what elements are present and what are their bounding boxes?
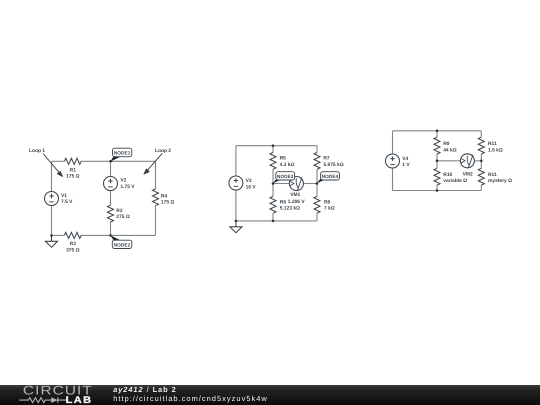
- svg-text:V3: V3: [246, 178, 252, 184]
- svg-text:1.75 V: 1.75 V: [120, 184, 135, 190]
- resistor R11 mystery: [478, 168, 484, 185]
- wire right vertical middle: [316, 169, 318, 196]
- resistor R1: [64, 158, 81, 164]
- wire middle vertical lower: [110, 222, 112, 235]
- svg-text:R9: R9: [443, 141, 450, 147]
- svg-text:5.875 kΩ: 5.875 kΩ: [323, 162, 343, 168]
- wire right vertical top: [480, 131, 482, 137]
- svg-text:ay2412 / Lab 2: ay2412 / Lab 2: [113, 385, 176, 394]
- wire mid vertical top: [436, 131, 438, 137]
- logo resistor-diode line: [19, 397, 66, 403]
- svg-text:R7: R7: [323, 156, 330, 162]
- wire left vertical upper: [51, 161, 53, 191]
- wire voltmeter right: [474, 160, 481, 162]
- resistor R10: [434, 168, 440, 185]
- ground: [45, 235, 57, 247]
- Loop 2 annotation: [143, 148, 171, 175]
- voltage source V3: [229, 176, 243, 190]
- svg-text:5.123 kΩ: 5.123 kΩ: [280, 206, 300, 212]
- wire left vertical upper: [392, 131, 394, 154]
- svg-text:16 V: 16 V: [246, 184, 257, 190]
- svg-text:NODE4: NODE4: [322, 174, 339, 179]
- svg-text:R4: R4: [161, 193, 168, 199]
- voltmeter VM2: [460, 154, 474, 168]
- resistor R7: [314, 153, 320, 170]
- resistor R6: [270, 196, 276, 213]
- footer bar: [0, 385, 540, 405]
- svg-text:R11: R11: [488, 172, 497, 178]
- wire bottom-right segment: [81, 234, 155, 236]
- resistor R3: [64, 232, 81, 238]
- svg-text:175 Ω: 175 Ω: [66, 174, 80, 180]
- junction NODE3: [272, 182, 275, 185]
- junction bottom left / ground: [235, 220, 238, 223]
- voltage source V2: [104, 177, 118, 191]
- svg-text:4.3 kΩ: 4.3 kΩ: [280, 162, 295, 168]
- node NODE4: [317, 172, 339, 184]
- junction at NODE2: [109, 234, 112, 237]
- junction bottom mid: [272, 220, 275, 223]
- svg-text:1 V: 1 V: [402, 162, 410, 168]
- junction NODE4: [316, 182, 319, 185]
- wire right vertical middle: [480, 154, 482, 168]
- resistor R8: [314, 196, 320, 213]
- voltage source V4: [386, 154, 400, 168]
- svg-text:Loop 1: Loop 1: [29, 148, 45, 154]
- resistor R11 top: [478, 137, 484, 154]
- resistor R5: [270, 153, 276, 170]
- voltage source V1: [45, 192, 59, 206]
- resistor R9: [434, 137, 440, 154]
- wire right vertical upper: [155, 161, 157, 189]
- wire right vertical top: [316, 146, 318, 153]
- svg-text:R3: R3: [70, 241, 77, 247]
- svg-text:Loop 2: Loop 2: [155, 148, 171, 154]
- svg-text:R2: R2: [116, 208, 123, 214]
- svg-text:mystery Ω: mystery Ω: [488, 178, 512, 184]
- svg-text:R5: R5: [280, 156, 287, 162]
- voltmeter VM1: [289, 177, 303, 191]
- ground: [230, 221, 242, 233]
- wire mid vertical bottom: [436, 185, 438, 190]
- wire top-left segment: [52, 160, 65, 162]
- wire left vertical upper: [235, 146, 237, 176]
- node NODE2: [110, 235, 132, 248]
- Loop 1 annotation: [29, 148, 63, 178]
- wire middle vertical mid: [110, 191, 112, 206]
- wire mid vertical middle: [436, 154, 438, 168]
- wire left vertical lower: [235, 190, 237, 221]
- wire bottom: [236, 220, 317, 222]
- junction mid right: [480, 160, 483, 163]
- svg-text:VM2: VM2: [463, 171, 473, 177]
- junction mid left: [436, 160, 439, 163]
- wire voltmeter right: [303, 183, 317, 185]
- svg-text:375 Ω: 375 Ω: [66, 248, 80, 254]
- svg-text:V1: V1: [61, 193, 67, 199]
- svg-text:44 kΩ: 44 kΩ: [443, 148, 457, 154]
- wire bottom: [393, 190, 482, 192]
- wire mid vertical top: [272, 146, 274, 153]
- resistor R4: [153, 189, 159, 206]
- svg-text:LAB: LAB: [66, 395, 93, 405]
- svg-text:R8: R8: [324, 199, 331, 205]
- svg-text:R6: R6: [280, 199, 287, 205]
- svg-text:R10: R10: [443, 172, 452, 178]
- junction top mid: [436, 130, 439, 133]
- wire mid vertical bottom: [272, 213, 274, 221]
- junction at NODE1: [109, 160, 112, 163]
- svg-text:variable Ω: variable Ω: [443, 178, 467, 184]
- svg-text:VM1: VM1: [290, 192, 300, 198]
- svg-text:7 kΩ: 7 kΩ: [324, 206, 335, 212]
- junction at V1/R3/ground: [50, 234, 53, 237]
- svg-text:R11: R11: [488, 141, 497, 147]
- svg-text:NODE2: NODE2: [114, 243, 131, 248]
- wire bottom-left segment: [52, 234, 65, 236]
- wire top-right segment: [81, 160, 155, 162]
- wire left vertical lower: [392, 168, 394, 191]
- svg-text:275 Ω: 275 Ω: [116, 214, 130, 220]
- wire right vertical bottom: [316, 213, 318, 221]
- junction top mid: [272, 144, 275, 147]
- svg-text:R1: R1: [70, 167, 77, 173]
- svg-text:1.206 V: 1.206 V: [288, 199, 306, 205]
- svg-text:V4: V4: [402, 156, 408, 162]
- svg-text:NODE1: NODE1: [114, 151, 131, 156]
- wire voltmeter left: [273, 183, 289, 185]
- wire top: [236, 145, 317, 147]
- svg-text:175 Ω: 175 Ω: [161, 200, 175, 206]
- junction bottom mid: [436, 189, 439, 192]
- wire voltmeter left: [437, 160, 460, 162]
- node NODE3: [273, 172, 295, 184]
- wire mid vertical middle: [272, 169, 274, 196]
- wire right vertical bottom: [480, 185, 482, 190]
- wire top: [393, 130, 482, 132]
- svg-text:7.5 V: 7.5 V: [61, 199, 73, 205]
- resistor R2: [108, 205, 114, 222]
- wire right vertical lower: [155, 206, 157, 236]
- wire left vertical lower: [51, 206, 53, 236]
- node NODE1: [110, 148, 132, 161]
- svg-text:NODE3: NODE3: [277, 174, 294, 179]
- svg-text:1.5 kΩ: 1.5 kΩ: [488, 148, 503, 154]
- wire middle vertical upper: [110, 161, 112, 176]
- svg-text:http://circuitlab.com/cnd5xyzu: http://circuitlab.com/cnd5xyzuv5k4w: [113, 394, 268, 403]
- svg-text:V2: V2: [120, 178, 126, 184]
